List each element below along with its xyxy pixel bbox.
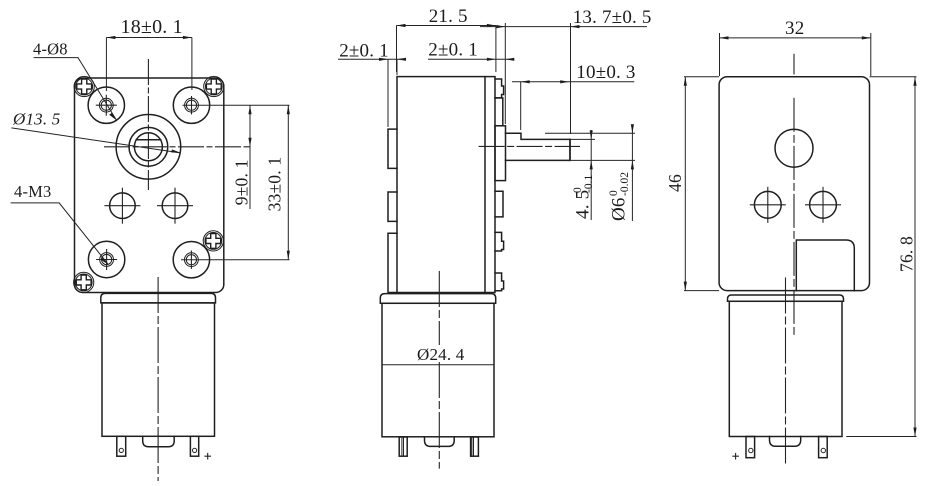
svg-text:4-Ø8: 4-Ø8 xyxy=(33,40,68,59)
svg-text:46: 46 xyxy=(665,174,685,192)
screw mid-right xyxy=(203,231,223,251)
terminal left (back) xyxy=(746,437,755,458)
dim 33±0.1 xyxy=(287,105,289,260)
dim 4.5 0/-0.1 xyxy=(570,138,595,140)
svg-text:Ø24. 4: Ø24. 4 xyxy=(417,345,465,364)
horizontal centerline xyxy=(104,146,250,148)
ext line from top-right hole xyxy=(183,104,290,106)
gearbox side outline xyxy=(397,77,495,293)
cover clip lower xyxy=(495,232,504,251)
motor cap (front view) xyxy=(101,293,216,303)
brush cap bump (side) xyxy=(425,437,455,446)
shaft flat chord xyxy=(136,139,161,141)
cover tab upper xyxy=(495,98,503,126)
centerline above plate xyxy=(793,54,795,75)
output shaft boss xyxy=(116,115,181,180)
motor body (back) xyxy=(729,301,842,436)
terminal left (front) xyxy=(117,436,126,456)
cover tab middle xyxy=(495,191,503,217)
vertical centerline boss xyxy=(147,59,149,190)
gearbox back plate xyxy=(719,77,869,291)
rear hole left xyxy=(754,191,781,218)
svg-text:2±0. 1: 2±0. 1 xyxy=(428,40,478,61)
svg-text:Ø13. 5: Ø13. 5 xyxy=(12,110,60,129)
svg-text:4. 5: 4. 5 xyxy=(573,190,594,219)
M3 hole left xyxy=(110,193,136,219)
plus polarity mark (back) xyxy=(732,453,739,460)
motor body (front view) xyxy=(102,303,215,436)
left tab 2 xyxy=(388,192,397,221)
terminal right (side) xyxy=(471,437,479,456)
dim 46 xyxy=(684,76,719,78)
svg-text:33±0. 1: 33±0. 1 xyxy=(265,157,285,212)
motor centerline (back) xyxy=(785,278,787,466)
screw top-right xyxy=(204,76,224,96)
vertical centerline (plate) xyxy=(793,98,795,337)
screw bottom-left xyxy=(74,272,94,292)
corner pad xyxy=(796,240,854,291)
svg-text:32: 32 xyxy=(785,18,804,39)
rear bearing boss xyxy=(775,129,813,167)
svg-text:21. 5: 21. 5 xyxy=(429,6,468,27)
terminal right (back) xyxy=(819,437,828,458)
plus polarity mark (front) xyxy=(204,453,211,460)
svg-text:13. 7±0. 5: 13. 7±0. 5 xyxy=(573,7,652,28)
screw top-left xyxy=(74,76,94,96)
dim 9±0.1 xyxy=(249,105,251,209)
shaft end edge xyxy=(569,139,571,160)
motor centerline (front) xyxy=(157,277,159,481)
gearbox/cover parting line xyxy=(484,77,486,293)
svg-text:9±0. 1: 9±0. 1 xyxy=(232,159,252,205)
boss hole bottom-left xyxy=(88,241,124,277)
cover clip top xyxy=(495,79,504,98)
svg-text:Ø6: Ø6 xyxy=(609,197,630,221)
motor cap (back) xyxy=(728,295,844,301)
terminal left (side) xyxy=(399,437,407,456)
terminal right (front) xyxy=(190,436,198,456)
output shaft (side) xyxy=(506,133,571,160)
svg-text:10±0. 3: 10±0. 3 xyxy=(576,62,635,83)
cover clip bottom xyxy=(495,273,504,291)
left tab 1 xyxy=(388,129,397,168)
brush cap bump (back) xyxy=(770,437,801,447)
dim 76.8 xyxy=(870,76,917,78)
motor centerline (side) xyxy=(438,271,440,345)
svg-text:4-M3: 4-M3 xyxy=(14,182,51,201)
svg-text:76. 8: 76. 8 xyxy=(897,236,917,272)
motor cap (side) xyxy=(380,294,495,304)
boss hole bottom-right xyxy=(173,242,209,278)
left tab 3 xyxy=(388,233,397,292)
motor body (side) xyxy=(382,303,494,437)
rear hole right xyxy=(810,191,837,218)
motor can joint line xyxy=(382,364,494,366)
M3 hole right xyxy=(162,193,188,219)
boss hole top-right xyxy=(173,87,209,123)
bearing hub xyxy=(495,126,506,181)
ext line from bottom-right hole xyxy=(181,259,290,261)
dim Ø6 0/-0.02 xyxy=(545,132,635,134)
gearbox front plate xyxy=(75,78,224,293)
svg-text:18±0. 1: 18±0. 1 xyxy=(121,16,183,38)
shaft centerline xyxy=(479,145,580,147)
svg-text:-0.02: -0.02 xyxy=(619,172,631,196)
brush cap bump (front) xyxy=(143,436,175,446)
svg-text:-0.1: -0.1 xyxy=(583,175,595,193)
boss hole top-left xyxy=(88,87,124,123)
